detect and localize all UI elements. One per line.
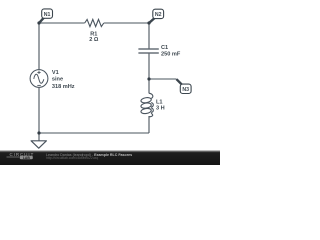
label L1 value 3 H [156, 100, 165, 112]
CircuitLab logo dash [7, 156, 20, 158]
junction dot node N2 [147, 21, 150, 24]
junction dot ground [37, 131, 40, 134]
svg-text:http://circuitlab.com/c8d9bhk2: http://circuitlab.com/c8d9bhk22uxq [46, 156, 98, 160]
wire right vertical upper lead of C1 [148, 23, 150, 48]
junction dot top-left corner [37, 21, 40, 24]
junction dot node N3 branch [147, 77, 150, 80]
resistor R1 [85, 19, 104, 26]
svg-text:V1: V1 [52, 70, 59, 76]
svg-text:LAB: LAB [23, 156, 31, 160]
wire bottom horizontal [39, 132, 149, 134]
node label N1 [39, 9, 52, 23]
wire upper lead of L1 [148, 79, 150, 93]
svg-text:N2: N2 [155, 12, 162, 18]
wire top-right horizontal (R1 to N2) [104, 22, 149, 24]
wire lower lead of L1 [148, 116, 150, 133]
wire left vertical lower (V1 to bottom) [38, 87, 40, 133]
footer watermark bar [0, 150, 220, 165]
svg-text:2 Ω: 2 Ω [89, 37, 99, 43]
svg-text:3 H: 3 H [156, 105, 165, 111]
svg-text:N1: N1 [44, 12, 51, 18]
capacitor C1 [138, 49, 158, 53]
svg-text:318 mHz: 318 mHz [52, 84, 75, 90]
wire ground lead [38, 133, 40, 141]
svg-text:N3: N3 [182, 87, 189, 93]
node label N3 [177, 79, 192, 93]
wire branch to node N3 [149, 78, 177, 80]
voltage source V1 [30, 70, 48, 88]
inductor L1 [141, 93, 154, 117]
wire right vertical lower lead of C1 [148, 54, 150, 79]
label R1 value 2 ohm [89, 31, 99, 42]
svg-text:C1: C1 [161, 45, 168, 51]
CircuitLab logo LAB badge [20, 156, 33, 160]
node label N2 [149, 9, 163, 23]
label V1 value sine 318 mHz [52, 70, 75, 90]
label C1 value 250 mF [161, 45, 181, 58]
ground [31, 141, 46, 148]
svg-text:sine: sine [52, 77, 63, 83]
wire left vertical upper (N1 to V1) [38, 23, 40, 70]
wire top-left horizontal (N1 to R1) [39, 22, 85, 24]
svg-text:250 mF: 250 mF [161, 52, 181, 58]
